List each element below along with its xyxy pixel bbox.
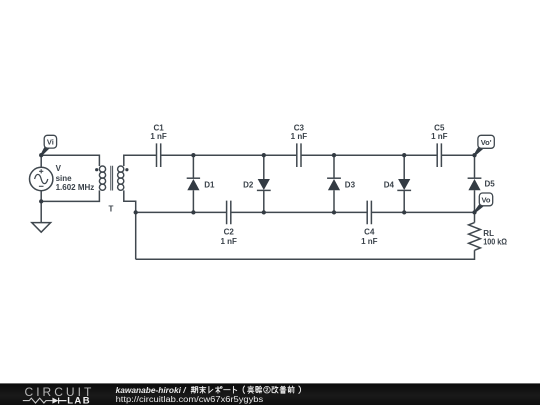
resistor RL xyxy=(469,223,481,251)
transformer T xyxy=(99,166,123,191)
svg-text:1.602 MHz: 1.602 MHz xyxy=(56,183,95,192)
svg-text:Vi: Vi xyxy=(47,138,54,147)
capacitor C5 xyxy=(437,143,441,167)
ground xyxy=(32,223,51,233)
footer title CJK part (drawn glyphs) xyxy=(191,386,300,393)
svg-text:D2: D2 xyxy=(243,181,254,190)
svg-text:http://circuitlab.com/cw67x6r5: http://circuitlab.com/cw67x6r5ygybs xyxy=(116,395,264,404)
diode D4 xyxy=(397,179,411,190)
svg-text:C4: C4 xyxy=(364,228,375,237)
node dot D3 bottom xyxy=(332,210,336,214)
svg-text:C1: C1 xyxy=(153,123,164,132)
node dot Vo xyxy=(472,210,476,214)
glyph 前 xyxy=(288,386,294,393)
node dot D2 top xyxy=(262,153,266,157)
wire transformer secondary top to C1 xyxy=(124,155,157,166)
glyph 験 xyxy=(256,386,262,393)
glyph レ xyxy=(209,387,213,393)
wire source bottom to ground xyxy=(40,190,42,222)
diode D3 xyxy=(327,178,341,190)
glyph （ xyxy=(243,386,244,393)
svg-text:C5: C5 xyxy=(434,123,445,132)
svg-text:100 kΩ: 100 kΩ xyxy=(483,238,507,247)
node dot secondary bottom xyxy=(134,210,138,214)
svg-text:D4: D4 xyxy=(384,181,395,190)
wire D2 leads xyxy=(263,155,265,212)
wire top rail C3 to C5 xyxy=(301,154,437,156)
voltage source plus sign xyxy=(39,169,43,173)
wire bottom rail left to C2 xyxy=(136,211,227,213)
wire D1 leads xyxy=(192,155,194,212)
voltage source sine wave xyxy=(35,174,48,183)
capacitor C1 xyxy=(157,143,161,167)
node dot Vo' xyxy=(472,153,476,157)
node dot D4 top xyxy=(402,153,406,157)
wire D3 leads xyxy=(333,155,335,212)
transformer phase dot primary xyxy=(95,168,98,171)
node dot Vi xyxy=(39,153,43,157)
diode D2 xyxy=(257,179,271,190)
svg-text:T: T xyxy=(108,204,113,213)
node dot D2 bottom xyxy=(262,210,266,214)
glyph ポ xyxy=(215,387,222,394)
logo symbol resistor+diode xyxy=(23,398,53,403)
wire bottom loop xyxy=(136,250,475,259)
diode D5 xyxy=(468,178,482,190)
glyph ② xyxy=(264,386,271,393)
wire bottom-left vertical to bottom loop xyxy=(135,212,137,259)
svg-text:kawanabe-hiroki /: kawanabe-hiroki / xyxy=(116,386,187,395)
wire bottom rail C4 to node Vo xyxy=(371,211,474,213)
capacitor C3 xyxy=(297,143,301,167)
svg-text:D1: D1 xyxy=(204,181,215,190)
capacitor C2 xyxy=(227,201,231,225)
flag Vo' xyxy=(475,135,495,155)
wire D4 leads xyxy=(403,155,405,212)
svg-text:1 nF: 1 nF xyxy=(220,237,237,246)
svg-text:1 nF: 1 nF xyxy=(291,132,308,141)
voltage source minus sign xyxy=(39,185,44,187)
node dot D1 top xyxy=(191,153,195,157)
svg-text:D5: D5 xyxy=(485,179,496,188)
secondary winding xyxy=(118,166,124,172)
voltage source V1 circle xyxy=(30,167,53,190)
node dot D4 bottom xyxy=(402,210,406,214)
core xyxy=(111,166,113,191)
svg-text:C3: C3 xyxy=(294,123,305,132)
node dot source bottom xyxy=(39,199,43,203)
junction dots xyxy=(39,153,477,215)
transformer phase dot secondary xyxy=(125,168,128,171)
glyph 善 xyxy=(280,386,286,393)
glyph ） xyxy=(299,386,301,393)
wire top rail C1 to C3 xyxy=(161,154,297,156)
wire transformer secondary bottom to bottom rail xyxy=(124,190,136,212)
glyph 末 xyxy=(199,386,205,393)
flag Vo xyxy=(475,193,493,212)
primary winding xyxy=(99,166,105,172)
node dot D1 bottom xyxy=(191,210,195,214)
svg-text:V: V xyxy=(56,164,62,173)
node dot D3 top xyxy=(332,153,336,157)
wire top rail C5 to node Vo' xyxy=(441,154,474,156)
footer bar xyxy=(0,383,540,405)
capacitor C4 xyxy=(367,201,371,225)
glyph 改 xyxy=(272,386,278,393)
flag Vi xyxy=(41,135,56,155)
wire source top to transformer primary top xyxy=(41,155,99,167)
glyph 期 xyxy=(191,387,198,394)
svg-text:1 nF: 1 nF xyxy=(150,132,167,141)
diode D1 xyxy=(187,178,200,190)
glyph 実 xyxy=(248,386,254,393)
svg-text:1 nF: 1 nF xyxy=(431,132,448,141)
svg-text:LAB: LAB xyxy=(67,395,90,405)
glyph ー xyxy=(224,389,230,391)
wire D5 leads xyxy=(474,155,476,212)
svg-text:1 nF: 1 nF xyxy=(361,237,378,246)
wire RL top lead xyxy=(474,212,476,222)
wire transformer primary bottom to source bottom xyxy=(41,190,99,201)
svg-text:Vo': Vo' xyxy=(481,138,492,147)
svg-text:D3: D3 xyxy=(345,181,356,190)
svg-text:C2: C2 xyxy=(224,228,235,237)
wire bottom rail C2 to C4 xyxy=(231,211,367,213)
glyph ト xyxy=(233,386,236,393)
svg-text:Vo: Vo xyxy=(481,195,490,204)
